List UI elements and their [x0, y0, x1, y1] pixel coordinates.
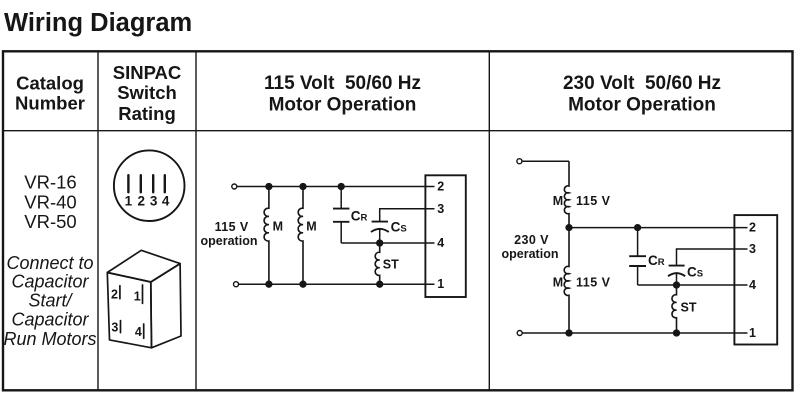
svg-text:Wiring Diagram: Wiring Diagram: [4, 9, 192, 37]
svg-text:Capacitor: Capacitor: [11, 310, 89, 330]
svg-text:Capacitor: Capacitor: [11, 272, 89, 292]
SINPAC switch case 3D box: [107, 250, 181, 347]
svg-text:CS: CS: [687, 265, 703, 280]
junction bottom M2 230V: [566, 330, 572, 336]
svg-text:1: 1: [125, 194, 133, 209]
svg-text:3: 3: [749, 242, 756, 256]
junction top M2: [300, 184, 306, 190]
start capacitor CS 230V: [668, 265, 703, 285]
svg-text:Number: Number: [15, 92, 85, 113]
svg-text:3: 3: [111, 321, 118, 335]
svg-text:M: M: [273, 219, 283, 233]
svg-text:4: 4: [135, 325, 142, 339]
switch face pin 1: [125, 175, 133, 208]
junction bottom ST 230V: [674, 330, 680, 336]
SINPAC switch U1 face view outline: [114, 150, 185, 221]
svg-text:115 V: 115 V: [576, 194, 611, 208]
115V bottom wire to terminal 1: [239, 283, 435, 285]
junction M1/M2 terminal2: [566, 225, 572, 231]
case terminal 4: [135, 324, 144, 339]
svg-text:4: 4: [437, 236, 444, 250]
svg-text:ST: ST: [681, 301, 697, 315]
wire terminal 4 net 230V: [638, 284, 748, 286]
case terminal 1: [134, 285, 143, 304]
svg-text:1: 1: [134, 290, 141, 304]
230V top wire: [522, 160, 569, 162]
svg-text:SINPAC: SINPAC: [113, 62, 182, 83]
115V line input terminal top: [232, 184, 237, 189]
wire terminal 4 net 115V: [341, 242, 434, 244]
junction top CR 230V: [635, 225, 641, 231]
junction top M1: [266, 184, 272, 190]
wire terminal 2 net 230V: [569, 227, 748, 229]
svg-text:M: M: [306, 219, 316, 233]
junction bottom ST: [377, 281, 383, 287]
svg-text:Run Motors: Run Motors: [3, 329, 96, 349]
motor main winding M1 230V: [553, 161, 611, 227]
svg-text:VR-40: VR-40: [24, 191, 76, 212]
svg-text:Catalog: Catalog: [16, 72, 84, 93]
junction bottom M1: [266, 281, 272, 287]
svg-text:1: 1: [749, 326, 756, 340]
svg-text:230 V: 230 V: [514, 233, 549, 247]
svg-text:4: 4: [162, 194, 170, 209]
start capacitor CS 115V: [371, 219, 407, 243]
switch face pin 4: [162, 175, 170, 208]
svg-text:4: 4: [749, 278, 756, 292]
svg-text:Motor Operation: Motor Operation: [568, 95, 716, 116]
svg-text:Start/: Start/: [28, 291, 73, 311]
svg-text:2: 2: [111, 287, 118, 301]
svg-text:230 Volt 50/60 Hz: 230 Volt 50/60 Hz: [563, 73, 721, 94]
svg-text:operation: operation: [201, 234, 258, 248]
230V line input terminal top: [517, 159, 522, 164]
svg-text:VR-16: VR-16: [24, 171, 76, 192]
label 230 V operation: [502, 233, 559, 261]
115V top wire to terminal 2: [237, 186, 435, 188]
wire terminal 3 to CS 115V: [380, 209, 435, 222]
svg-text:Switch: Switch: [117, 82, 177, 103]
svg-text:2: 2: [749, 221, 756, 235]
svg-text:3: 3: [437, 202, 444, 216]
case terminal 2: [111, 286, 120, 302]
230V bottom wire to terminal 1: [522, 332, 747, 334]
case terminal 3: [111, 321, 120, 335]
svg-text:115 Volt 50/60 Hz: 115 Volt 50/60 Hz: [264, 73, 421, 94]
svg-text:Motor Operation: Motor Operation: [269, 95, 417, 116]
SINPAC switch box 230V: [734, 215, 777, 344]
label 115 V operation: [201, 220, 258, 248]
230V line input terminal bottom: [517, 331, 522, 336]
115V line input terminal bottom: [234, 282, 239, 287]
motor main winding M2 115V: [298, 187, 317, 285]
svg-text:M: M: [553, 275, 563, 289]
motor main winding M1 115V: [264, 187, 283, 285]
svg-text:CR: CR: [648, 253, 665, 268]
wire terminal 3 to CS 230V: [677, 249, 748, 266]
svg-text:Connect to: Connect to: [6, 253, 93, 273]
svg-text:M: M: [553, 194, 563, 208]
svg-text:3: 3: [150, 194, 158, 209]
junction CS/ST terminal4 230V: [674, 282, 680, 288]
start winding ST 230V: [672, 285, 697, 333]
svg-text:2: 2: [137, 194, 145, 209]
switch face pin 3: [150, 175, 158, 208]
svg-text:1: 1: [437, 277, 444, 291]
svg-text:ST: ST: [383, 258, 399, 272]
junction bottom M2: [300, 281, 306, 287]
junction top CR: [338, 184, 344, 190]
svg-text:VR-50: VR-50: [24, 211, 76, 232]
start winding ST 115V: [375, 243, 399, 284]
motor main winding M2 230V: [553, 228, 611, 333]
svg-text:CS: CS: [391, 219, 407, 234]
junction CS/ST terminal4: [377, 240, 383, 246]
run capacitor CR 230V: [629, 228, 665, 285]
SINPAC switch box 115V: [425, 175, 465, 297]
svg-text:Rating: Rating: [118, 103, 176, 124]
svg-text:operation: operation: [502, 247, 559, 261]
svg-text:115 V: 115 V: [215, 220, 249, 234]
run capacitor CR 115V: [333, 187, 368, 244]
switch face pin 2: [137, 175, 145, 208]
svg-text:115 V: 115 V: [576, 275, 611, 289]
svg-text:2: 2: [437, 179, 444, 193]
svg-text:CR: CR: [351, 209, 368, 224]
